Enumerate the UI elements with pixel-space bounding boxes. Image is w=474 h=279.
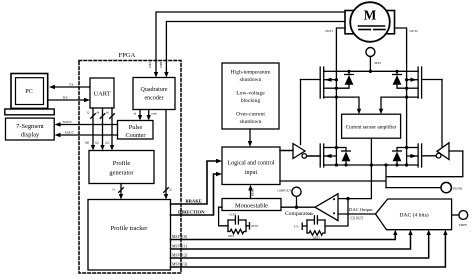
svg-text:dir: dir [134,113,137,116]
svg-text:Logical and control: Logical and control [228,161,275,167]
svg-text:Q0: Q0 [85,141,89,145]
svg-text:count: count [151,113,157,116]
transistor Q2 upper-right MOSFET [405,67,442,98]
Logical and control input box [222,147,280,185]
inverter driver left [280,144,307,159]
Pulse Counter [118,121,154,140]
svg-text:BRAKE: BRAKE [186,198,202,203]
svg-text:MSVT(3): MSVT(3) [172,263,188,267]
svg-text:RINT: RINT [228,235,234,238]
wire UART bus Q0 [85,108,95,151]
svg-text:CHA: CHA [148,61,152,68]
MT2 supply terminal [366,48,381,74]
svg-text:Over-current: Over-current [236,112,265,118]
transistor Q3 lower-left MOSFET [307,144,339,167]
svg-text:generator: generator [109,170,134,177]
wire encoder to pulse counter B [147,110,158,121]
svg-text:DAC (4 bits): DAC (4 bits) [399,211,428,218]
svg-text:Pulse: Pulse [129,124,143,131]
wire shutdown block to logical input [248,129,252,147]
wire BRAKE [171,159,223,204]
wire DAC output to comparator [338,207,376,214]
transistor Q1 upper-left MOSFET [301,67,339,98]
Profile tracker [88,200,171,271]
Quadrature encoder [133,78,175,110]
VREF terminal [452,211,468,227]
wire MSVT(3) to DAC [171,230,448,267]
wire UART bus Q2 [105,108,114,151]
wire MSVT(2) to DAC [171,230,431,258]
svg-text:Q1: Q1 [95,141,99,145]
svg-text:Q2: Q2 [105,141,109,145]
wire RX [49,96,90,103]
svg-text:UART: UART [93,91,110,98]
svg-text:MT2: MT2 [375,61,382,65]
svg-text:Quadrature: Quadrature [141,87,168,93]
COMP OUT terminal [277,187,301,207]
svg-text:input: input [245,170,258,176]
resistor-capacitor network RC2 (comparator filter) [294,199,348,240]
svg-text:AOUT: AOUT [65,131,75,135]
svg-text:MSVT(2): MSVT(2) [172,254,188,258]
wire CHA from motor to encoder [148,12,345,78]
comparator U2 [285,194,338,221]
High-temperature / Low-voltage / Over-current shutdown box [222,63,279,129]
wire TX [49,83,90,90]
svg-text:REXT: REXT [313,236,320,239]
svg-text:COMP OUT: COMP OUT [277,190,292,193]
wire DIRECTION [171,172,223,215]
svg-text:OUT2: OUT2 [410,29,419,33]
Current sensor amplifier [342,114,401,138]
wire gate feed upper-left [300,80,302,145]
svg-text:RESET: RESET [252,187,255,196]
wire generator to tracker [112,184,123,200]
Monoestable [222,199,281,211]
svg-text:shutdown: shutdown [240,77,262,83]
wire left driver to Q3 gate [307,155,321,157]
resistor-capacitor network RC1 (monostable timing) [219,207,259,238]
node OUT2 wire [395,28,419,165]
svg-text:Counter: Counter [126,132,146,139]
node OUT1 wire [325,28,345,165]
diode D1 (upper-left body diode) [336,70,353,88]
wire logical to left driver [280,150,293,152]
svg-text:Low-voltage: Low-voltage [236,91,265,97]
diode D2 (upper-right body diode) [393,70,407,88]
svg-text:display: display [21,131,40,138]
svg-text:CHB: CHB [159,62,163,68]
wire comparator output to monostable [281,206,315,209]
svg-text:4.7k: 4.7k [294,226,299,229]
sense/ground rail [324,163,418,166]
wire MSVT(0) to DAC [171,230,398,240]
DAC (4 bits) [376,199,452,230]
svg-text:Current sensor amplifier: Current sensor amplifier [346,124,397,131]
wire encoder to pulse counter A [134,110,143,121]
svg-text:PC: PC [25,88,33,95]
svg-text:MSVT(0): MSVT(0) [172,235,188,239]
PC monitor icon [5,74,54,115]
motor M with terminals [345,2,395,42]
svg-text:CEXT: CEXT [230,214,237,217]
svg-text:CS OUT: CS OUT [351,217,364,221]
wire upper-left source to current sense amp [324,96,362,115]
diode D4 (lower-right body diode) [393,148,407,167]
svg-text:7-Segment: 7-Segment [16,123,44,130]
wire encoder to profile tracker [164,110,173,200]
wire AOUT to display [55,131,118,138]
svg-text:DIRECTION: DIRECTION [178,209,205,214]
svg-text:CAP: CAP [309,213,315,216]
inverter driver right [436,143,463,160]
svg-text:Profile tracker: Profile tracker [111,225,149,232]
svg-text:TX: TX [69,83,74,87]
svg-text:RX: RX [63,96,68,100]
svg-text:PGND: PGND [453,187,463,191]
wire UART bus Q1 [95,108,105,151]
wire upper-right source to current sense amp [379,96,418,115]
wire logical output to right driver [280,151,463,188]
svg-text:DAC Output: DAC Output [349,207,373,212]
diode D3 (lower-left body diode) [336,148,350,167]
svg-text:blocking: blocking [241,98,261,104]
svg-text:XOUT: XOUT [63,120,73,124]
svg-text:encoder: encoder [145,96,164,102]
wire MSVT(1) to DAC [171,230,413,249]
svg-text:Monoestable: Monoestable [235,203,268,210]
svg-text:High-temperature: High-temperature [231,70,271,76]
svg-text:MSVT(1): MSVT(1) [172,245,188,249]
wire XOUT to display [55,120,118,127]
supply rail [336,70,406,72]
svg-text:shutdown: shutdown [240,119,262,125]
FPGA dashed boundary box [79,52,181,273]
wire monostable to logical input [248,185,254,199]
svg-text:FPGA: FPGA [119,52,136,59]
7-Segment display box [6,118,55,140]
svg-text:VREF: VREF [459,223,468,227]
svg-text:Profile: Profile [113,160,131,167]
svg-text:M: M [364,7,377,22]
UART U1 [90,78,114,108]
transistor Q4 lower-right MOSFET [405,144,436,167]
wire CHB from motor to encoder [159,22,345,78]
svg-text:OUT1: OUT1 [325,29,334,33]
PGND terminal [386,182,463,192]
Profile generator [89,151,154,184]
svg-text:REXT: REXT [252,225,259,228]
wire current sense output to comparator [338,138,371,220]
wire gate feed upper-right [441,80,443,147]
